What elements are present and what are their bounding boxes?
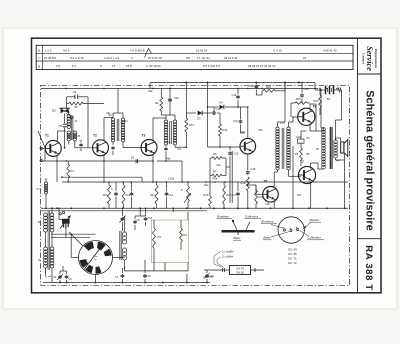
svg-text:R8: R8 [74,105,78,109]
capacitor C11 [202,112,212,114]
svg-text:C1b: C1b [233,120,238,123]
svg-text:R7b: R7b [296,97,301,101]
wire T4 emitter chain [247,154,249,170]
svg-text:Émetteur: Émetteur [262,218,275,223]
svg-text:24: 24 [303,56,307,60]
resistor R8 [69,102,83,105]
svg-text:fer: fer [94,258,97,261]
title block divider [357,38,359,293]
antenna coil L1b [50,213,54,217]
title text Schema general provisoire [363,90,375,231]
svg-text:4.6 5: 4.6 5 [63,48,70,52]
chassis dashed border [41,85,350,285]
svg-text:C12: C12 [169,194,174,197]
feedback winding S4 [44,182,47,185]
transistor T3 [141,140,157,156]
svg-text:2%: 2% [186,56,191,60]
svg-text:C9a: C9a [148,90,153,93]
svg-text:Repère: Repère [310,218,320,222]
wire mid distribution rail [62,181,348,183]
handwritten mark on table [145,49,152,58]
wire IFT1 to T2 base [75,147,93,149]
svg-text:OC 71: OC 71 [288,257,297,261]
terminal loop under D2 [66,113,71,116]
svg-text:7.6 5.416 E: 7.6 5.416 E [130,48,145,52]
svg-text:C4a: C4a [216,164,221,167]
wire T3 collector [152,118,154,140]
wire speaker ground [344,160,346,208]
svg-text:OC 44: OC 44 [288,248,297,252]
svg-text:2. 92 18 24: 2. 92 18 24 [146,64,161,68]
resistor R14 [219,124,222,136]
capacitor C9 [134,220,136,221]
svg-text:C5a: C5a [106,112,111,115]
resistor R7 [212,174,222,177]
tuning gang CV1 [62,219,70,224]
svg-text:R4a: R4a [204,184,209,187]
svg-text:C2b: C2b [258,129,263,132]
resistor R16 [255,190,258,204]
wire detector line [186,112,196,114]
wire IFT3 bottom to detector [174,145,176,147]
svg-text:D2: D2 [52,109,56,113]
svg-text:R13: R13 [189,123,194,127]
trimmer C2 [121,217,123,218]
svg-text:T5: T5 [264,180,268,184]
wire tuner horizontals [51,233,96,235]
svg-text:6 1: 6 1 [72,64,76,68]
svg-text:T1: T1 [45,134,49,138]
svg-text:34 21 5.41: 34 21 5.41 [224,56,238,60]
svg-text:Central: Central [362,53,366,64]
resistor R6 [300,148,303,160]
svg-text:2.: 2. [131,56,134,60]
resistor R13 [185,118,188,132]
inset side view transistor [222,230,255,233]
wire TR1 primary bottom [277,170,279,172]
svg-text:T7: T7 [300,160,304,164]
repere notch [303,228,305,230]
resistor R19 [256,94,262,96]
svg-text:C13: C13 [234,152,239,156]
wire band box bottom rail link [124,268,126,271]
capacitor C15a [115,192,117,194]
wire C6 right leg [87,97,89,148]
antenna coil L1a [44,213,48,217]
svg-text:4.45 41 42: 4.45 41 42 [323,48,337,52]
transistor T7 [298,166,315,183]
resistor R12 [155,185,158,204]
wire TR2 secondary to speaker [335,138,337,140]
trimmer C8b [206,274,208,275]
svg-text:C7b: C7b [166,142,171,145]
potentiometer volume [187,186,190,202]
title block divider 2 [358,73,382,75]
wire stor top [300,131,302,139]
wire battery leads [315,89,326,91]
capacitor C15b [131,192,133,194]
wire T6 collector to output transformer [309,104,311,111]
wire into switch diagonal [69,232,83,246]
trimmer C15 [145,217,147,218]
capacitor C7 ground [121,274,123,275]
IF transformer 3 [164,120,167,123]
wire top rail drops [185,82,187,84]
transistor T1 [45,140,61,156]
wire IFT2 bottom [112,142,114,145]
wire R9 [160,88,162,97]
wire ground rail [41,207,348,209]
inset pins [283,229,285,231]
svg-text:R15: R15 [204,193,209,197]
capacitor C7a [112,146,114,147]
svg-text:C16: C16 [249,84,254,88]
resistor R20 [319,95,322,108]
wire T6 emitter [309,123,311,131]
svg-text:R12: R12 [150,194,155,197]
IF transformer 1 primary [67,115,70,118]
svg-text:C18: C18 [251,167,256,171]
wire switch leads [95,275,97,283]
svg-text:Plan: Plan [93,256,98,258]
resistor R9 [160,97,163,111]
svg-text:D4: D4 [219,101,223,105]
wire C11 to R14 [217,112,220,114]
wire T4 base R16 [239,146,241,148]
wire top supply rail [150,82,315,84]
wire R7b left [291,102,295,104]
svg-text:Collecteur: Collecteur [308,236,323,240]
capacitor C3b [301,93,303,94]
svg-text:R18: R18 [241,181,246,185]
capacitor C5b in line [135,159,137,163]
svg-text:R10: R10 [103,194,108,197]
battery switch mark [338,88,340,93]
wire antenna bottom [51,268,53,283]
wire antenna middle [51,232,53,247]
inset bottom view circle [278,217,304,243]
wire T1 base [41,147,45,149]
wire R14 bottom [219,136,221,147]
wire top rail down link [149,83,151,89]
svg-text:T3: T3 [142,134,146,138]
svg-text:OA 85: OA 85 [236,270,244,274]
capacitor Ch ground [144,274,146,275]
svg-text:G: G [45,276,47,279]
svg-text:Émetteur: Émetteur [217,213,230,218]
band switch enclosure [152,220,189,263]
wire T5 collector to driver transformer [273,172,275,188]
IFT1 core [71,116,73,140]
wire T3 emitter [152,155,154,182]
inset diode body [230,266,251,275]
wire CV1 leads [58,213,60,220]
svg-text:HP: HP [336,159,340,163]
svg-text:RA 388 T: RA 388 T [363,245,374,291]
wire R13 [185,83,187,119]
wire C4 C5 top [60,270,67,272]
wire T5 emitter [273,201,275,209]
svg-text:cathode: cathode [203,275,214,279]
wire T3 emitter branch [157,160,182,162]
wire vertical feed [207,83,209,148]
svg-text:R14: R14 [223,128,228,132]
svg-text:Schéma général provisoire: Schéma général provisoire [363,90,375,231]
wire base line T4 [208,146,241,148]
wire T7 emitter [310,181,312,208]
svg-text:R9: R9 [155,101,159,105]
capacitor C5 ground [66,275,68,276]
svg-text:12: 12 [112,64,116,68]
svg-text:24.6 26.78: 24.6 26.78 [148,56,162,60]
terminal circle left [40,147,42,149]
svg-text:T4: T4 [241,131,245,135]
wire TR1 secondary bottom to T7 base [288,170,290,176]
capacitor C6 [67,96,75,98]
capacitor C14 [237,95,239,97]
wire T2 collector [103,118,105,141]
svg-text:16,41 14: 16,41 14 [196,48,208,52]
wire IFT1 bottom leads [68,141,70,145]
oscillator coil L2 [122,232,126,236]
IF transformer 1 secondary [73,131,76,134]
resistor R5 [212,157,222,160]
wire left edge vertical [44,148,46,161]
svg-text:8.4 m 0.15: 8.4 m 0.15 [70,56,84,60]
transistor T4 [240,138,256,154]
svg-text:8 5 6 134 6 6: 8 5 6 134 6 6 [203,64,220,68]
svg-text:R5: R5 [213,152,217,156]
svg-text:Base: Base [264,236,271,240]
svg-text:4. 4.15: 4. 4.15 [273,48,282,52]
svg-text:4 10.2 c 4.2: 4 10.2 c 4.2 [104,56,119,60]
capacitor C7b IFT3 [165,145,167,147]
capacitor C1b [240,107,242,119]
svg-text:R6a: R6a [166,158,171,161]
resistor R1 [67,164,70,178]
output transformer TR2 [322,128,326,132]
capacitor C16 [255,85,257,86]
wire mid vertical x173 [172,208,174,212]
svg-text:2e chiffre: 2e chiffre [221,255,234,259]
wire IFT1 top leads [65,110,69,112]
wire T4 collector net [247,107,249,139]
resistor R18 [246,177,249,191]
resistor R17 [223,185,226,204]
svg-text:15 45 5%: 15 45 5% [44,56,57,60]
svg-text:C3b: C3b [304,87,309,91]
wire R5 R7 column [209,158,211,196]
svg-text:R1: R1 [71,169,75,173]
diode D4 [214,106,219,108]
wire R18 bottom [247,191,249,208]
svg-text:1.2.3: 1.2.3 [45,48,52,52]
wire C6 left leg [66,97,68,108]
IF transformer 2 [111,118,114,121]
svg-text:R7: R7 [213,170,217,174]
svg-text:B: B [38,49,40,53]
svg-text:C8: C8 [59,124,63,128]
wire mid vertical x140 [139,208,141,216]
svg-text:18 39 16 15 16.34 13: 18 39 16 15 16.34 13 [248,64,276,68]
svg-text:C15: C15 [148,217,153,220]
svg-text:R19: R19 [266,85,271,89]
wire TR1 center tap [292,146,294,208]
resistor R4 [180,228,183,242]
svg-text:D1: D1 [197,117,201,121]
resistor R3 [153,228,156,248]
wire TR2 center tap to battery [320,90,322,128]
wire T1 base diagonal [38,131,45,148]
svg-text:C10: C10 [174,96,179,100]
svg-text:P: P [181,188,183,192]
wire T7 collector [310,163,312,169]
osc core [120,231,122,260]
switch wafer wedges [84,242,94,251]
capacitor C17 [237,192,239,194]
wire band box to rail [164,263,166,271]
svg-text:Base: Base [234,236,241,240]
wire T1 emitter [56,156,58,182]
wire ground rail lower [41,210,207,212]
wire volume to T4 feed [187,212,189,220]
wire battery to speaker side [341,90,343,120]
svg-text:TR1: TR1 [280,121,285,125]
svg-text:C14: C14 [232,93,237,97]
capacitor C9b [186,274,188,283]
svg-text:R21: R21 [297,194,302,197]
svg-text:R20: R20 [314,99,319,103]
switch wafer circle [79,241,113,275]
thermistor stor [298,139,305,143]
svg-text:R4: R4 [184,233,188,237]
svg-text:OC 45: OC 45 [288,252,297,256]
title text Departement Service Central [362,46,378,71]
wire osc bottom [124,260,126,268]
wire S4 leads [45,178,47,182]
wire IFT2 to T3 base [123,147,141,149]
capacitor C7b under IFT1 [80,143,82,144]
wire bottom left rail [43,282,210,284]
wire osc top [124,216,126,232]
wire T5 base [256,193,263,195]
svg-text:C15a: C15a [168,177,175,181]
switch wafer arrow [84,247,101,270]
title text RA 388 T [363,245,374,291]
driver transformer TR1 [276,127,279,130]
svg-text:Collecteur: Collecteur [245,214,260,218]
wire osc box top [62,176,142,178]
component value table [36,45,353,69]
terminal circle left 2 [40,159,42,161]
wire TR1 primary top [277,122,279,127]
svg-text:OC 72: OC 72 [288,261,297,265]
transistor T2 [93,140,109,156]
svg-text:C17: C17 [232,194,237,197]
wire inner top rail [41,87,318,89]
speaker HP [341,142,344,153]
svg-text:C6: C6 [73,90,77,94]
diode D1 [198,111,203,116]
capacitor C4 ground [59,275,61,276]
svg-text:C19: C19 [265,203,270,206]
svg-text:17. 16. 51: 17. 16. 51 [197,56,210,60]
svg-text:T2: T2 [93,134,97,138]
svg-text:C: C [111,188,113,191]
capacitor C18 [247,170,249,172]
antenna core [47,211,49,270]
wire D4 left [213,107,215,111]
svg-text:R3: R3 [158,235,162,239]
svg-text:2.9: 2.9 [56,64,60,68]
wire left long horizontal [41,160,153,162]
drawing border frame [32,38,382,293]
transistor T6 [298,108,315,125]
resistor R7b [295,102,307,105]
capacitor C10 [169,98,171,100]
wire TR1 secondary top to T6 base [288,122,290,127]
inset diode leads [204,269,230,271]
capacitor C12 [166,192,168,194]
capacitor C8 [64,113,66,123]
wire T1 collector [57,131,59,141]
diode D2 [61,108,65,113]
svg-text:R5a: R5a [213,177,218,181]
wire C10 leads [169,88,171,98]
wire T2 emitter [103,155,105,182]
svg-text:15.8: 15.8 [126,64,132,68]
transistor T5 [263,187,279,203]
capacitor C13 [229,151,231,153]
resistor R15 [209,196,212,206]
wire antenna top [51,208,53,213]
title block divider 3 [358,238,382,240]
resistor R11 [122,185,125,204]
wire switch bottom dot [95,277,97,279]
battery 6V [325,86,327,94]
resistor R10 [108,185,111,204]
